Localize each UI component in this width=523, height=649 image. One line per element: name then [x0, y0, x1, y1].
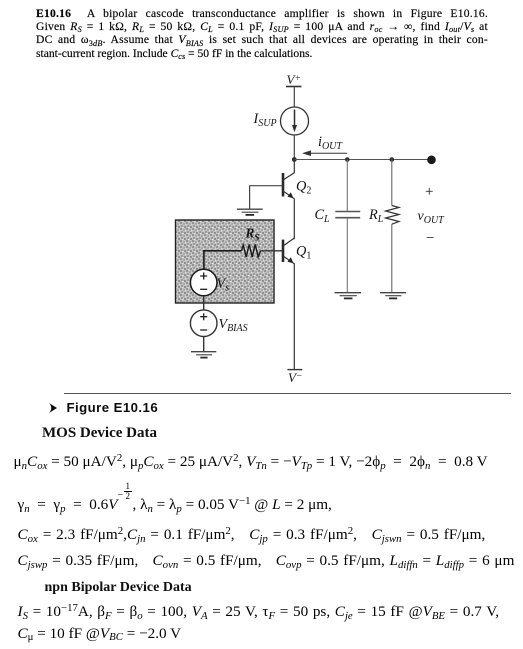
svg-text:vOUT: vOUT	[418, 209, 446, 226]
wire output rail	[294, 159, 431, 161]
equation line 4	[18, 553, 515, 568]
wire Vs to VBIAS	[203, 296, 205, 310]
svg-text:Q2: Q2	[296, 179, 311, 197]
wire RS to Q1 base	[261, 250, 283, 252]
wire CL to ground	[346, 218, 348, 292]
bipolar line 2	[18, 626, 182, 641]
transistor Q1	[283, 238, 294, 370]
capacitor CL	[335, 212, 360, 218]
wire ISUP to output node	[293, 135, 295, 160]
svg-text:ISUP: ISUP	[253, 111, 277, 129]
problem statement paragraph	[36, 7, 488, 60]
svg-text:+: +	[425, 184, 433, 200]
wire Q2 base	[250, 185, 283, 187]
equation line 3	[18, 527, 486, 542]
ground below RL	[380, 293, 406, 299]
wire Vs to RS	[204, 251, 242, 269]
equation line 2	[18, 497, 332, 512]
svg-text:RL: RL	[368, 207, 384, 225]
transistor Q2	[283, 160, 294, 239]
V+ supply bar	[286, 86, 302, 88]
figure caption	[49, 401, 159, 414]
ground below VBIAS	[191, 352, 216, 358]
svg-text:CL: CL	[315, 207, 331, 225]
node junction at collector of Q2	[292, 157, 297, 162]
node V- bar	[287, 369, 302, 371]
svg-text:iOUT: iOUT	[318, 134, 343, 152]
voltage source VBIAS	[190, 310, 217, 337]
resistor RS	[242, 244, 261, 257]
wire CL branch top	[346, 160, 348, 212]
wire VBIAS to ground	[203, 337, 205, 352]
resistor RL	[386, 206, 400, 225]
label iOUT with arrow	[302, 134, 347, 156]
current source ISUP	[281, 107, 309, 135]
ground at Q2 base	[237, 209, 263, 215]
npn header	[45, 581, 192, 595]
svg-text:Q1: Q1	[296, 244, 311, 262]
MOS header	[42, 426, 157, 441]
node output terminal dot	[427, 156, 436, 165]
ground below CL	[335, 293, 362, 299]
wire V+ to ISUP	[293, 87, 295, 108]
wire base drop to ground	[249, 186, 251, 209]
wire RL to ground	[391, 224, 393, 292]
equation line 1	[14, 454, 488, 469]
node junction RL tap	[390, 157, 395, 162]
svg-text:−: −	[426, 231, 434, 247]
source shading box	[176, 220, 275, 303]
svg-text:VBIAS: VBIAS	[219, 317, 248, 334]
svg-text:V−: V−	[288, 370, 302, 385]
svg-text:V+: V+	[287, 72, 301, 87]
figure separator rule	[64, 393, 511, 394]
bipolar line 1	[18, 604, 500, 619]
node junction CL tap	[345, 157, 350, 162]
wire RL branch top	[391, 160, 393, 206]
voltage source Vs	[190, 269, 217, 296]
